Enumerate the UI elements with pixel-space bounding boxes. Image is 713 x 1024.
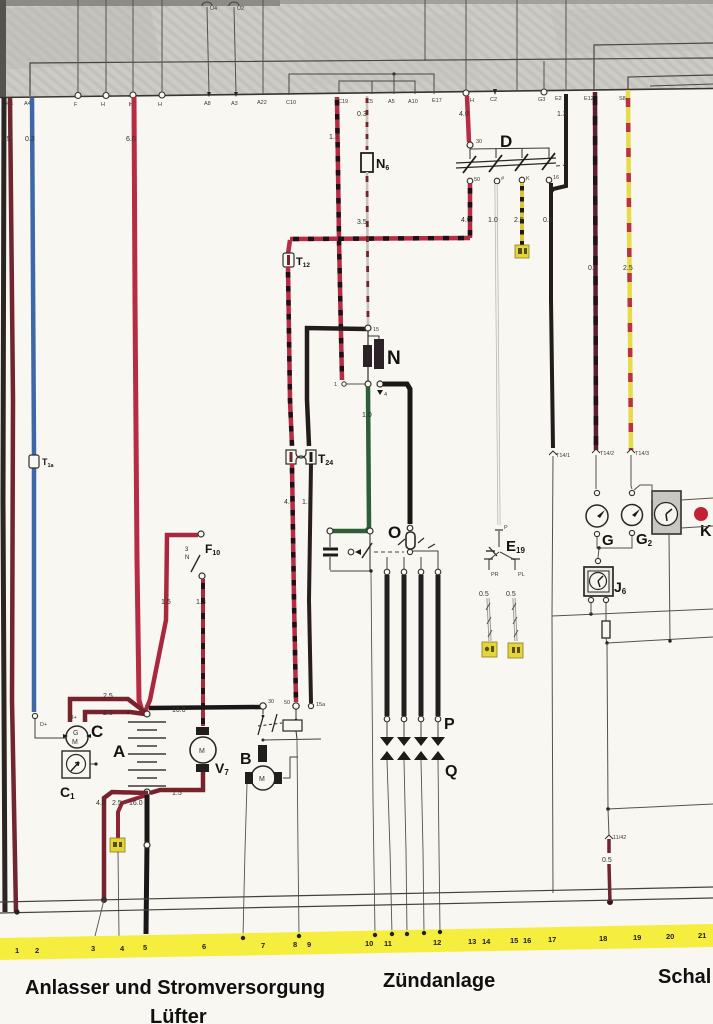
wire maroon 0.5 to ground strip: [607, 839, 611, 853]
scan gray band at top: [0, 0, 713, 98]
line G2 to K: [634, 485, 652, 500]
vertical drop H1: [105, 0, 107, 94]
svg-text:5: 5: [143, 943, 147, 952]
wire red/black 4.0 horizontal from D50: [290, 238, 470, 239]
svg-text:50: 50: [474, 177, 480, 183]
thin line T14/3 to gauge G2: [631, 455, 632, 489]
spark plug lead 1: [384, 569, 390, 575]
vertical drop x517: [516, 0, 518, 91]
svg-text:S8: S8: [619, 96, 626, 102]
wire gray 0.5 PL to block: [514, 598, 516, 641]
svg-text:E2: E2: [555, 96, 562, 102]
connector T12: [283, 253, 294, 267]
svg-text:9: 9: [307, 940, 311, 949]
switch D bar: [456, 158, 556, 163]
svg-text:Zündanlage: Zündanlage: [383, 970, 495, 992]
svg-text:14: 14: [482, 937, 491, 946]
svg-text:4.0: 4.0: [96, 800, 106, 807]
bracket line L1: [289, 74, 434, 95]
svg-text:G3: G3: [538, 97, 545, 103]
svg-text:2.5: 2.5: [112, 800, 122, 807]
svg-text:7: 7: [261, 941, 265, 950]
svg-text:13: 13: [468, 937, 476, 946]
wire U4 to A8: [207, 7, 209, 94]
svg-text:4: 4: [384, 392, 387, 398]
contact breaker lever and cam: [369, 534, 371, 570]
wire A4 blue 0.3: [32, 98, 34, 712]
svg-text:U4: U4: [210, 6, 217, 12]
starter solenoid winding: [258, 745, 267, 762]
antenna symbol U4: [202, 2, 212, 6]
voltage stabilizer J6: [595, 558, 600, 563]
svg-text:1.5: 1.5: [172, 790, 182, 797]
svg-text:H: H: [158, 102, 162, 108]
switch F1a: [198, 531, 204, 537]
switch E19 white wire end P: [495, 529, 503, 531]
thin line battery 4.0 to strip: [95, 900, 104, 936]
connector T14/3 on yellow wire: [627, 449, 635, 453]
yellow terminal strip: [0, 924, 713, 960]
svg-text:3.5: 3.5: [357, 219, 367, 226]
thin line fuse block to strip: [118, 852, 119, 936]
yellow connector block PR: [482, 642, 497, 657]
svg-text:Lüfter: Lüfter: [150, 1006, 207, 1024]
svg-text:B+: B+: [70, 715, 77, 721]
svg-text:C19: C19: [338, 99, 348, 105]
wire yellow/red 2.5 S8 down: [628, 90, 631, 450]
svg-text:C: C: [91, 722, 103, 741]
breaker ring terminals: [327, 528, 333, 534]
svg-text:30: 30: [476, 139, 482, 145]
svg-text:16.0: 16.0: [172, 707, 186, 714]
wire H red 4.0 to ignition switch D: [467, 96, 469, 142]
svg-text:B: B: [240, 751, 252, 768]
svg-text:1.3: 1.3: [557, 111, 567, 118]
svg-text:2.5: 2.5: [103, 710, 113, 717]
svg-text:O: O: [388, 523, 401, 542]
wire G01 maroon 1.5 down left edge: [10, 98, 16, 912]
alternator wire maroon 2.5 upper: [70, 699, 145, 722]
svg-text:A: A: [113, 742, 125, 761]
svg-text:A10: A10: [408, 99, 418, 105]
svg-text:3: 3: [91, 944, 95, 953]
distributor rotor: [407, 525, 413, 531]
battery A plus terminal junction: [144, 711, 150, 717]
dark top edge of scan: [0, 0, 713, 4]
svg-text:H: H: [470, 98, 474, 104]
svg-text:G: G: [73, 730, 78, 737]
bracket L2 drop C5: [371, 81, 373, 94]
svg-text:4.0: 4.0: [461, 217, 471, 224]
svg-text:K: K: [700, 523, 712, 540]
svg-text:1.5: 1.5: [161, 599, 171, 606]
svg-text:A22: A22: [257, 100, 267, 106]
wire black 16.0 battery to starter 30: [149, 707, 262, 708]
starter terminal 30: [260, 703, 266, 709]
switch D output terminals: [467, 178, 473, 184]
wire maroon 4.0 battery to ground bus: [104, 792, 148, 900]
harness line right y78: [628, 75, 713, 89]
ring terminal H3: [159, 92, 165, 98]
condenser: [329, 534, 331, 547]
svg-text:11: 11: [384, 939, 392, 948]
svg-text:1.3: 1.3: [329, 134, 339, 141]
harness line right y45: [594, 43, 713, 91]
thin lines plugs to strip: [387, 760, 440, 934]
plug lead stubs: [387, 722, 438, 737]
svg-text:0.5: 0.5: [479, 591, 489, 598]
svg-text:M: M: [199, 748, 205, 755]
coil terminal 1: [367, 367, 369, 381]
rotor dashed cam line: [374, 551, 404, 553]
strip numbers: [15, 931, 706, 955]
drop to G3: [543, 61, 545, 89]
wire yellow/black 2.5 DK to connector: [520, 183, 524, 245]
E19 branch PL: [500, 552, 515, 570]
boundary line under gray band: [0, 89, 713, 98]
spark plugs Q: [380, 751, 445, 760]
wire black 0.5 D16 down to T14: [551, 183, 553, 448]
gauge G2 temperature: [629, 490, 634, 495]
rotor contacts to plug leads: [398, 538, 435, 548]
thin wire D+ terminal to alternator C: [35, 719, 66, 738]
svg-text:C2: C2: [490, 97, 497, 103]
fuse block yellow: [110, 838, 125, 852]
wire black 16.0 battery to frame: [146, 795, 147, 934]
wire red/black drop to T12: [288, 240, 290, 254]
ring terminal H x466: [463, 90, 469, 96]
svg-text:2.5: 2.5: [103, 693, 113, 700]
vertical drop H3: [161, 0, 163, 94]
svg-text:Q: Q: [445, 763, 457, 780]
svg-text:15: 15: [510, 936, 518, 945]
breaker ground line: [330, 570, 371, 572]
svg-text:18: 18: [599, 934, 607, 943]
svg-text:1.3: 1.3: [196, 599, 206, 606]
wire red/black T24 to starter 50: [292, 464, 296, 702]
svg-text:N: N: [185, 555, 189, 561]
connector 11/42: [608, 809, 609, 836]
svg-text:A8: A8: [204, 101, 211, 107]
yellow connector block PL: [508, 643, 523, 658]
svg-text:M: M: [72, 739, 78, 746]
switch D feed bracket: [470, 148, 549, 159]
left page edge black line: [3, 98, 5, 912]
wire red/black 1.3 switch to fan motor V7: [201, 579, 205, 726]
svg-text:T14/3: T14/3: [635, 451, 649, 457]
wire red/black T12 to T24: [288, 267, 292, 446]
svg-text:15a: 15a: [316, 702, 326, 708]
svg-text:1.5: 1.5: [1, 136, 11, 143]
arrow pin C2: [493, 89, 497, 95]
svg-text:A4: A4: [24, 101, 31, 107]
starter motor: [251, 766, 275, 790]
svg-text:0.5: 0.5: [506, 591, 516, 598]
line y809 to right edge: [608, 804, 713, 809]
wire red/black 4.0 D50 down: [468, 184, 473, 238]
N6 dashed wire lower to coil 15: [367, 172, 368, 324]
spark plug lead 3: [418, 569, 424, 575]
battery A plates: [128, 722, 166, 786]
junction maroon G01 at bus: [14, 909, 19, 914]
svg-text:M: M: [259, 776, 265, 783]
svg-text:Anlasser und Stromversorgung: Anlasser und Stromversorgung: [25, 977, 325, 999]
starter terminal 15a: [308, 703, 313, 708]
spark plug lead 2: [401, 569, 407, 575]
wire maroon/black 0.5 E12 down: [595, 92, 596, 450]
warning lamp red dot: [694, 507, 708, 521]
ring terminal H1: [103, 93, 109, 99]
lines K to right edge: [681, 498, 713, 500]
wire black 1.3 E2 to D16: [551, 94, 566, 192]
svg-text:N: N: [387, 348, 401, 369]
connector T24: [286, 450, 316, 464]
svg-text:K: K: [526, 176, 530, 182]
wire maroon 1.5 V7 to battery minus: [150, 772, 203, 793]
starter link line: [262, 739, 265, 742]
ring terminal G3: [541, 89, 547, 95]
starter B solenoid contacts: [262, 709, 264, 714]
dark left scan edge: [0, 0, 6, 98]
alternator wire maroon 2.5 lower: [85, 712, 145, 722]
svg-text:G: G: [602, 532, 614, 549]
ballast resistor N6: [361, 153, 373, 172]
svg-text:0.3: 0.3: [357, 111, 367, 118]
thin line T14/1 to ground network: [552, 456, 553, 893]
yellow connector block under DK: [515, 245, 529, 258]
alternator C: [66, 726, 88, 748]
svg-text:6: 6: [202, 942, 206, 951]
spark plug lead 4: [435, 569, 441, 575]
stub C1 right: [90, 763, 97, 765]
svg-text:30: 30: [268, 699, 274, 705]
coil terminal 15: [365, 325, 371, 331]
svg-text:20: 20: [666, 932, 674, 941]
bracket L1 junction dot and drop A5: [392, 72, 395, 75]
vertical drop x425: [424, 0, 426, 61]
svg-text:E12: E12: [584, 96, 594, 102]
battery minus junction: [144, 789, 150, 795]
svg-text:2.5: 2.5: [514, 217, 524, 224]
svg-text:D+: D+: [40, 722, 47, 728]
switch D levers: [463, 153, 555, 173]
green wire 1.0 coil 1 to breaker: [333, 387, 369, 531]
svg-text:A5: A5: [388, 99, 395, 105]
svg-text:U2: U2: [237, 6, 244, 12]
ballast resistor N6 dashed wire upper: [366, 96, 369, 150]
svg-text:0.5: 0.5: [543, 217, 553, 224]
strip dots: [241, 936, 245, 940]
coil terminal 4: [377, 381, 383, 387]
svg-text:PL: PL: [518, 572, 525, 578]
svg-text:P: P: [504, 525, 508, 531]
band shading blotches: [0, 4, 160, 70]
connector T14/1 on black wire: [549, 451, 557, 455]
svg-text:T14/1: T14/1: [556, 453, 570, 459]
starter brush bracket: [283, 757, 298, 778]
svg-text:0.5: 0.5: [602, 857, 612, 864]
vertical drop A22: [262, 0, 264, 94]
thin line starter motor to strip: [243, 784, 247, 937]
svg-text:4.0: 4.0: [459, 111, 469, 118]
bracket line L2: [339, 81, 415, 94]
svg-text:2.5: 2.5: [623, 265, 633, 272]
connector on black wire: [144, 842, 150, 848]
gauge bottoms joined: [597, 536, 632, 548]
svg-text:16: 16: [523, 936, 531, 945]
wire gray 0.5 PR to block: [488, 598, 490, 641]
svg-text:+: +: [126, 710, 130, 717]
J6 bottom terminals: [588, 597, 593, 602]
wire black T24 to starter 15a: [309, 464, 311, 703]
thermo switch F1a feed wire red 1.5: [145, 535, 198, 712]
svg-text:16: 16: [553, 175, 559, 181]
svg-text:E17: E17: [432, 98, 442, 104]
connector T14/2 on maroon wire: [592, 449, 600, 453]
arrow pin A3: [234, 92, 238, 97]
dropping resistor under J6: [605, 603, 607, 621]
svg-text:1.0: 1.0: [362, 412, 372, 419]
svg-text:H: H: [101, 102, 105, 108]
harness line right y85: [650, 84, 713, 86]
line resistor down to y809: [607, 643, 608, 809]
antenna symbol U2: [229, 2, 239, 6]
thin line distributor to strip: [371, 572, 375, 934]
wire white 1.0 D# to E19: [496, 184, 499, 525]
wire U2 to A3: [234, 7, 236, 94]
svg-text:T14/2: T14/2: [600, 451, 614, 457]
vertical drop F: [77, 0, 79, 94]
wire red 2.5 battery to fuse block: [118, 795, 147, 838]
svg-text:0.5: 0.5: [588, 265, 598, 272]
junction battery 4.0 at bus: [101, 897, 107, 903]
main harness line y62: [30, 58, 713, 96]
fan motor V7: [196, 727, 209, 735]
svg-text:PR: PR: [491, 572, 499, 578]
svg-text:1: 1: [15, 946, 19, 955]
line K bottom down: [669, 534, 670, 642]
ring terminal F: [75, 93, 81, 99]
ring terminal H2: [130, 92, 136, 98]
svg-text:6.0: 6.0: [126, 136, 136, 143]
wire H red 6.0 feed to battery: [134, 97, 142, 711]
ignition coil N windings: [367, 331, 369, 345]
ignition switch D terminal 30: [467, 142, 473, 148]
ground bus lower line: [0, 898, 713, 913]
svg-text:17: 17: [548, 935, 556, 944]
wire C19 red/black 1.3 vertical: [337, 97, 342, 380]
wire black 1.5 coil15 to T24: [307, 328, 366, 446]
thin line solenoid to strip: [297, 739, 299, 935]
connector T1a on blue wire: [29, 455, 39, 468]
svg-text:16.0: 16.0: [129, 800, 143, 807]
svg-text:12: 12: [433, 938, 441, 947]
svg-text:10: 10: [365, 939, 373, 948]
vertical drop H x466: [465, 0, 467, 92]
arrow pin A8: [207, 92, 211, 97]
line y643 resistor to right edge: [607, 637, 713, 643]
svg-text:19: 19: [633, 933, 641, 942]
vertical drop E2: [565, 0, 567, 91]
svg-text:C10: C10: [286, 100, 296, 106]
svg-text:0.3: 0.3: [25, 136, 35, 143]
starter terminal 50: [293, 703, 299, 709]
ground line y616: [552, 609, 713, 616]
vertical drop H2 red feed: [132, 0, 134, 94]
svg-text:21: 21: [698, 931, 706, 940]
svg-text:Schal: Schal: [658, 966, 711, 988]
svg-text:15: 15: [373, 327, 379, 333]
clock K: [652, 491, 681, 534]
svg-text:1.0: 1.0: [488, 217, 498, 224]
svg-text:1: 1: [334, 382, 337, 388]
switch E19 lever: [498, 531, 500, 547]
svg-text:50: 50: [284, 700, 290, 706]
terminal D+ at end of blue wire: [32, 713, 37, 718]
E19 branch PR: [489, 552, 499, 570]
svg-text:11/42: 11/42: [613, 835, 626, 841]
regulator C1: [62, 751, 90, 778]
svg-text:A3: A3: [231, 101, 238, 107]
svg-text:P: P: [444, 716, 455, 733]
svg-text:2: 2: [35, 946, 39, 955]
svg-text:8: 8: [293, 940, 297, 949]
thin line T14/2 to gauge G: [595, 455, 597, 489]
gauge G fuel: [594, 490, 599, 495]
ground bus upper line: [0, 887, 713, 902]
HT lead coil to distributor thick black: [383, 384, 410, 524]
